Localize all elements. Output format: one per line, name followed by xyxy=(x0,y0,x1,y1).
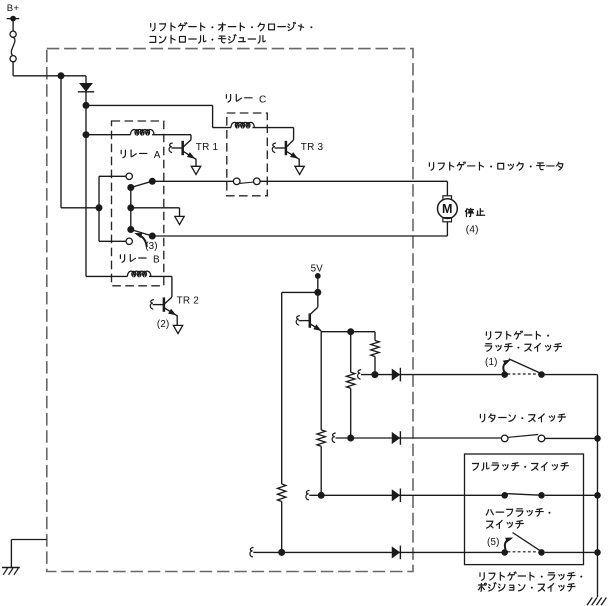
svg-text:(5): (5) xyxy=(487,537,500,548)
svg-text:B: B xyxy=(153,255,160,266)
svg-text:B+: B+ xyxy=(7,3,20,14)
svg-text:TR 2: TR 2 xyxy=(177,296,200,307)
svg-text:C: C xyxy=(259,95,266,106)
svg-text:A: A xyxy=(154,150,161,161)
svg-text:5V: 5V xyxy=(311,264,324,275)
svg-text:TR 3: TR 3 xyxy=(301,142,324,153)
svg-text:(2): (2) xyxy=(157,319,170,330)
svg-text:(1): (1) xyxy=(485,357,498,368)
svg-text:TR 1: TR 1 xyxy=(196,142,219,153)
svg-text:M: M xyxy=(442,202,453,216)
svg-text:(4): (4) xyxy=(466,224,479,235)
